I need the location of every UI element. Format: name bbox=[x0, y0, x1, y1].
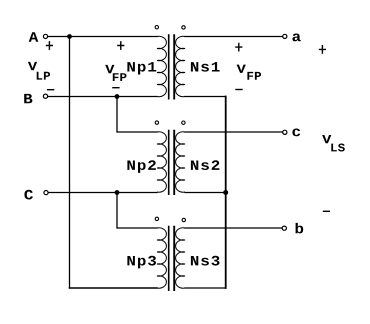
wire C to Np2 bottom bbox=[48, 192, 157, 194]
terminal C bbox=[44, 191, 48, 195]
wire B to Np1 bottom bbox=[48, 96, 157, 98]
label V of VFP left bbox=[105, 65, 114, 73]
junction node C bbox=[115, 190, 120, 195]
winding Np1 bbox=[157, 36, 166, 96]
terminal B bbox=[43, 94, 47, 98]
label B bbox=[24, 94, 32, 103]
subscript FP left bbox=[113, 73, 127, 81]
wire Ns2 bottom bbox=[185, 192, 226, 194]
winding Ns2 bbox=[176, 132, 185, 192]
polarity dot Ns3 bbox=[182, 218, 185, 221]
label Ns2 bbox=[191, 160, 220, 170]
plus VFP left bbox=[117, 41, 124, 50]
label Np1 bbox=[127, 62, 156, 74]
plus VLS bbox=[319, 45, 326, 54]
label Ns1 bbox=[191, 62, 220, 72]
minus VLS bbox=[323, 210, 330, 212]
terminal a bbox=[283, 34, 287, 38]
label b bbox=[296, 223, 304, 234]
junction node neutral bbox=[223, 190, 228, 195]
terminal c bbox=[283, 130, 287, 134]
winding Ns3 bbox=[176, 228, 185, 288]
wire B junction to Np2 top bbox=[117, 97, 157, 133]
core T3 bbox=[168, 226, 170, 291]
winding Np2 bbox=[157, 132, 166, 192]
subscript FP right bbox=[247, 72, 261, 80]
label c bbox=[292, 129, 300, 137]
subscript LS bbox=[331, 144, 345, 152]
wire Ns1 bottom bbox=[185, 96, 226, 98]
wire Ns2 top to c bbox=[185, 131, 283, 133]
wire left vertical A-to-bottom bbox=[69, 37, 71, 289]
polarity dot Np1 bbox=[155, 26, 158, 29]
winding Np3 bbox=[157, 228, 166, 288]
wire Ns3 top to b bbox=[185, 227, 282, 229]
polarity dot Np2 bbox=[155, 121, 158, 124]
polarity dot Ns2 bbox=[182, 121, 185, 124]
polarity dot Np3 bbox=[155, 217, 158, 220]
wire right vertical neutral bbox=[225, 97, 227, 289]
label Np3 bbox=[127, 256, 156, 269]
subscript LP bbox=[37, 72, 50, 80]
minus VFP left bbox=[112, 87, 119, 89]
wire A to Np1 top bbox=[48, 36, 157, 38]
label C bbox=[24, 190, 33, 200]
minus VLP bbox=[47, 89, 54, 91]
winding Ns1 bbox=[176, 36, 185, 96]
label V of VLP bbox=[28, 62, 37, 70]
polarity dot Ns1 bbox=[182, 26, 185, 29]
label A bbox=[29, 32, 39, 41]
wire C junction to Np3 top bbox=[117, 193, 157, 229]
core T2 bbox=[168, 130, 170, 195]
label V of VLS bbox=[322, 135, 331, 143]
terminal A bbox=[43, 34, 47, 38]
minus VFP right bbox=[235, 89, 242, 91]
label Np2 bbox=[127, 160, 155, 173]
plus VLP bbox=[46, 41, 53, 50]
core T1 bbox=[168, 34, 170, 99]
wire bottom to Np3 bottom bbox=[70, 287, 158, 289]
plus VFP right bbox=[235, 43, 242, 52]
terminal b bbox=[282, 226, 286, 230]
junction node B bbox=[115, 94, 120, 99]
label a bbox=[292, 34, 300, 42]
label Ns3 bbox=[191, 256, 220, 266]
label V of VFP right bbox=[237, 65, 246, 73]
junction node A bbox=[67, 34, 72, 39]
wire Ns3 bottom bbox=[185, 287, 226, 289]
wire Ns1 top to a bbox=[185, 36, 283, 38]
